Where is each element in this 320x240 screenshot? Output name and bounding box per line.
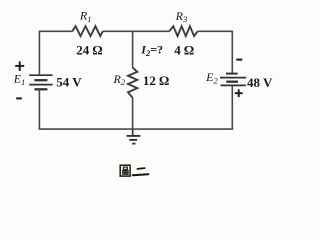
wire middle branch lower (132, 97, 134, 129)
svg-text:R2: R2 (113, 72, 126, 87)
caption figure 2 (CJK drawn as strokes) (120, 165, 148, 176)
wire bottom (39, 128, 234, 130)
resistor R3 (169, 26, 197, 36)
E2 negative sign (236, 59, 242, 61)
svg-text:R1: R1 (79, 9, 92, 24)
resistor R1 (72, 26, 103, 36)
E1 negative sign (16, 97, 22, 99)
caption glyph tu (boxed) (120, 165, 130, 176)
svg-text:E1: E1 (13, 72, 26, 87)
E1 positive sign (15, 61, 24, 71)
svg-text:48 V: 48 V (247, 75, 273, 90)
svg-text:E2: E2 (205, 70, 218, 85)
svg-text:I2=?: I2=? (140, 42, 163, 58)
wire top right segment and right upper (198, 31, 233, 73)
svg-text:4 Ω: 4 Ω (174, 42, 194, 57)
wire left lower segment (38, 90, 40, 130)
svg-text:54 V: 54 V (56, 74, 82, 89)
wire middle branch upper (132, 31, 134, 68)
wire top-left and left upper segment (39, 31, 72, 74)
battery E1 (29, 75, 52, 89)
svg-text:12 Ω: 12 Ω (143, 73, 169, 88)
caption glyph two (133, 168, 149, 175)
svg-text:24 Ω: 24 Ω (76, 42, 102, 57)
svg-text:R3: R3 (175, 9, 188, 24)
resistor R2 (128, 68, 137, 98)
ground (127, 129, 141, 144)
E2 positive sign (235, 89, 243, 97)
wire top middle segment (103, 30, 170, 32)
wire right lower segment (231, 86, 233, 129)
battery E2 (220, 74, 246, 86)
